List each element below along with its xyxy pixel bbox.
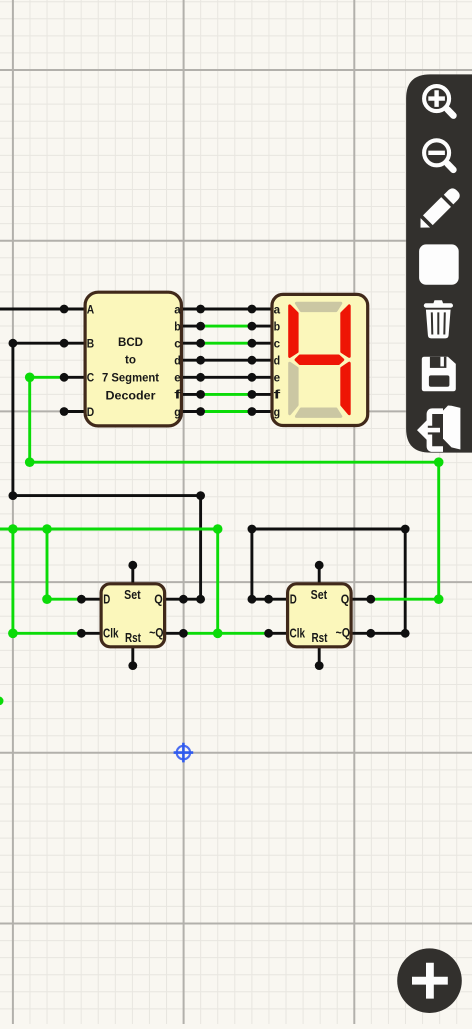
svg-text:A: A — [87, 302, 95, 316]
segment a (off) — [296, 303, 340, 310]
svg-text:g: g — [274, 405, 281, 419]
pin dot decoder output b — [196, 322, 205, 331]
pin dot FF1 Q — [179, 595, 188, 604]
pin dot decoder output f — [196, 390, 205, 399]
toolbar icon zoom-out — [424, 140, 453, 170]
svg-text:D: D — [87, 405, 95, 419]
toolbar icon trash — [424, 300, 453, 338]
wire FF1 Set pin stub — [131, 565, 134, 584]
segment d (off) — [296, 409, 340, 416]
svg-text:a: a — [274, 302, 281, 316]
pin dot FF2 Clk — [264, 629, 273, 638]
pin dot FF1 ~Q — [179, 629, 188, 638]
junction clock-net corner right — [213, 524, 223, 534]
wire display input g stub — [252, 410, 272, 413]
clipped green pin dot at left edge — [0, 697, 4, 706]
junction B-net corner mid — [9, 491, 18, 500]
wire decoder pin D stub — [64, 410, 85, 413]
svg-text:b: b — [174, 319, 181, 333]
segment b (on) — [342, 306, 349, 357]
svg-text:Set: Set — [124, 588, 141, 602]
pin dot FF2 Q — [366, 595, 375, 604]
junction clock-net at Clk1 drop — [8, 524, 18, 534]
pin dot FF1 D — [77, 595, 86, 604]
wire FF1 Rst pin stub — [131, 647, 134, 666]
wire display input d stub — [252, 359, 272, 362]
svg-text:7 Segment: 7 Segment — [102, 371, 159, 385]
junction C-net corner top — [25, 373, 35, 383]
wire net clock horizontal from off-screen left — [0, 528, 218, 531]
wire decoder output a stub — [181, 308, 201, 311]
svg-text:B: B — [87, 337, 95, 351]
7-segment display DS1 body — [272, 294, 368, 425]
svg-text:C: C — [87, 371, 95, 385]
wire wire decoder e to display e (low) — [201, 376, 252, 379]
pin dot display input d — [248, 356, 257, 365]
junction D2-net corner right — [401, 525, 410, 534]
pin dot decoder output a — [196, 305, 205, 314]
svg-text:~Q: ~Q — [336, 626, 351, 640]
svg-text:D: D — [290, 593, 297, 607]
wire wire decoder c to display c (high) — [201, 342, 252, 345]
junction D2-net corner bottom — [401, 629, 410, 638]
svg-text:e: e — [274, 371, 281, 385]
wire decoder pin A stub — [64, 308, 85, 311]
junction clock-net at D1 drop — [42, 524, 52, 534]
wire FF1 Clk pin stub — [81, 632, 101, 635]
pin dot FF2 Set — [315, 561, 324, 570]
D flip-flop FF2 body — [288, 584, 352, 647]
wire FF2 ~Q pin stub — [351, 632, 371, 635]
pin dot display input g — [248, 407, 257, 416]
wire FF1 Q pin stub — [165, 598, 184, 601]
junction clock-net corner D1 — [42, 594, 52, 604]
toolbar panel — [406, 74, 472, 452]
svg-text:c: c — [174, 337, 181, 351]
svg-text:b: b — [274, 319, 281, 333]
junction D2-net corner left — [248, 525, 257, 534]
pin dot display input b — [248, 322, 257, 331]
segment e (off) — [290, 363, 297, 414]
svg-text:d: d — [174, 354, 181, 368]
wire decoder output e stub — [181, 376, 201, 379]
junction C-net corner right — [434, 457, 444, 467]
svg-text:Q: Q — [341, 593, 350, 607]
wire net ~Q2-to-D2 vertical right — [404, 529, 407, 633]
wire display input b stub — [252, 325, 272, 328]
wire wire decoder g to display g (high) — [201, 410, 252, 413]
wire FF2 Q pin stub — [351, 598, 371, 601]
add component FAB — [397, 948, 462, 1013]
pin dot FF1 Rst — [128, 661, 137, 670]
svg-text:c: c — [274, 337, 281, 351]
wire net ~Q2-to-D2 horizontal top — [252, 528, 405, 531]
toolbar icon pencil (edit) — [416, 186, 462, 232]
wire wire decoder b to display b (high) — [201, 325, 252, 328]
segment f (on) — [290, 306, 297, 357]
pin dot display input f — [248, 390, 257, 399]
wire display input c stub — [252, 342, 272, 345]
wire FF1 D pin stub — [81, 598, 101, 601]
wire display input e stub — [252, 376, 272, 379]
wire net Q1-to-B vertical right — [199, 496, 202, 600]
junction clock-net corner Clk1 — [8, 629, 18, 639]
pin dot decoder output e — [196, 373, 205, 382]
svg-text:D: D — [103, 593, 110, 607]
junction C-net at Q2 row — [434, 594, 444, 604]
pin dot display input e — [248, 373, 257, 382]
wire net Q1-to-B horizontal mid — [13, 494, 201, 497]
junction B-net corner right — [196, 491, 205, 500]
wire decoder pin B stub — [64, 342, 85, 345]
origin crosshair — [174, 743, 194, 763]
svg-text:to: to — [125, 353, 136, 367]
FAB plus — [412, 963, 448, 999]
junction D2-net at D2 row — [248, 595, 257, 604]
wire net clock vertical to Clk1 — [11, 529, 14, 633]
wire wire to FF1 D — [47, 598, 81, 601]
svg-text:~Q: ~Q — [149, 626, 164, 640]
junction B-net corner top — [9, 339, 18, 348]
svg-text:d: d — [274, 354, 281, 368]
segment c (on) — [342, 363, 349, 414]
wire wire to FF1 Clk — [13, 632, 82, 635]
svg-text:Decoder: Decoder — [106, 388, 156, 402]
junction C-net corner left — [25, 457, 35, 467]
svg-text:g: g — [174, 405, 181, 419]
BCD decoder U1 body — [85, 292, 181, 426]
wire net Q1-to-B vertical left — [11, 343, 14, 495]
wire net Q2-to-C vertical right — [437, 462, 440, 599]
pin dot decoder output c — [196, 339, 205, 348]
segment g (on) — [296, 356, 343, 363]
wire wire ~Q1 to Clk2 — [183, 632, 268, 635]
wire input A from off-screen left — [0, 308, 64, 311]
toolbar icon save (floppy) — [422, 357, 456, 392]
svg-text:Clk: Clk — [103, 627, 119, 641]
pin dot display input a — [248, 305, 257, 314]
pin dot display input c — [248, 339, 257, 348]
wire decoder output b stub — [181, 325, 201, 328]
wire FF2 Set pin stub — [318, 565, 321, 584]
pin dot decoder output d — [196, 356, 205, 365]
pin dot FF2 Rst — [315, 661, 324, 670]
wire wire decoder d to display d (low) — [201, 359, 252, 362]
wire net Q2-to-C horizontal mid — [30, 461, 439, 464]
pin dot FF1 Clk — [77, 629, 86, 638]
wire decoder output g stub — [181, 410, 201, 413]
pin dot FF1 Set — [128, 561, 137, 570]
wire display input f stub — [252, 393, 272, 396]
pin dot decoder input A — [60, 305, 69, 314]
wire wire decoder a to display a (low) — [201, 308, 252, 311]
svg-text:Q: Q — [154, 593, 163, 607]
svg-text:BCD: BCD — [118, 335, 143, 349]
svg-text:Rst: Rst — [312, 631, 329, 645]
svg-text:e: e — [174, 371, 181, 385]
svg-text:Set: Set — [311, 588, 328, 602]
toolbar icon exit — [417, 406, 460, 450]
svg-text:Rst: Rst — [125, 631, 142, 645]
pin dot decoder input C — [60, 373, 69, 382]
pin dot decoder output g — [196, 407, 205, 416]
wire FF1 ~Q pin stub — [165, 632, 184, 635]
wire net ~Q2-to-D2 link to D2 — [252, 598, 269, 601]
pin dot decoder input D — [60, 407, 69, 416]
wire decoder output d stub — [181, 359, 201, 362]
wire display input a stub — [252, 308, 272, 311]
svg-text:Clk: Clk — [290, 627, 306, 641]
wire wire Q2-to-C horizontal at C — [30, 376, 64, 379]
wire FF2 D pin stub — [269, 598, 288, 601]
toolbar icon rectangle tool — [419, 244, 459, 284]
wire net ~Q2-to-D2 vertical left — [250, 529, 253, 599]
junction B-net at Q1 — [196, 595, 205, 604]
pin dot FF2 ~Q — [366, 629, 375, 638]
svg-text:a: a — [174, 302, 181, 316]
wire FF2 Rst pin stub — [318, 647, 321, 666]
wire net Q2-to-C link to Q2 — [371, 598, 439, 601]
wire decoder output f stub — [181, 393, 201, 396]
pin dot decoder input B — [60, 339, 69, 348]
wire net Q1-to-B link to Q1 — [183, 598, 200, 601]
toolbar icon zoom-in — [424, 86, 453, 116]
wire decoder pin C stub — [64, 376, 85, 379]
wire net clock vertical to D1 — [46, 529, 49, 599]
junction clock-net at ~Q1 wire — [213, 629, 223, 639]
wire net ~Q2-to-D2 horizontal bottom — [371, 632, 405, 635]
D flip-flop FF1 body — [101, 584, 165, 647]
wire decoder output c stub — [181, 342, 201, 345]
wire net Q2-to-C vertical left — [28, 377, 31, 462]
pin dot FF2 D — [264, 595, 273, 604]
wire wire decoder f to display f (high) — [201, 393, 252, 396]
wire FF2 Clk pin stub — [269, 632, 288, 635]
wire net clock vertical to ~Q1 row — [216, 529, 219, 633]
wire net Q1-to-B horizontal — [13, 342, 64, 345]
